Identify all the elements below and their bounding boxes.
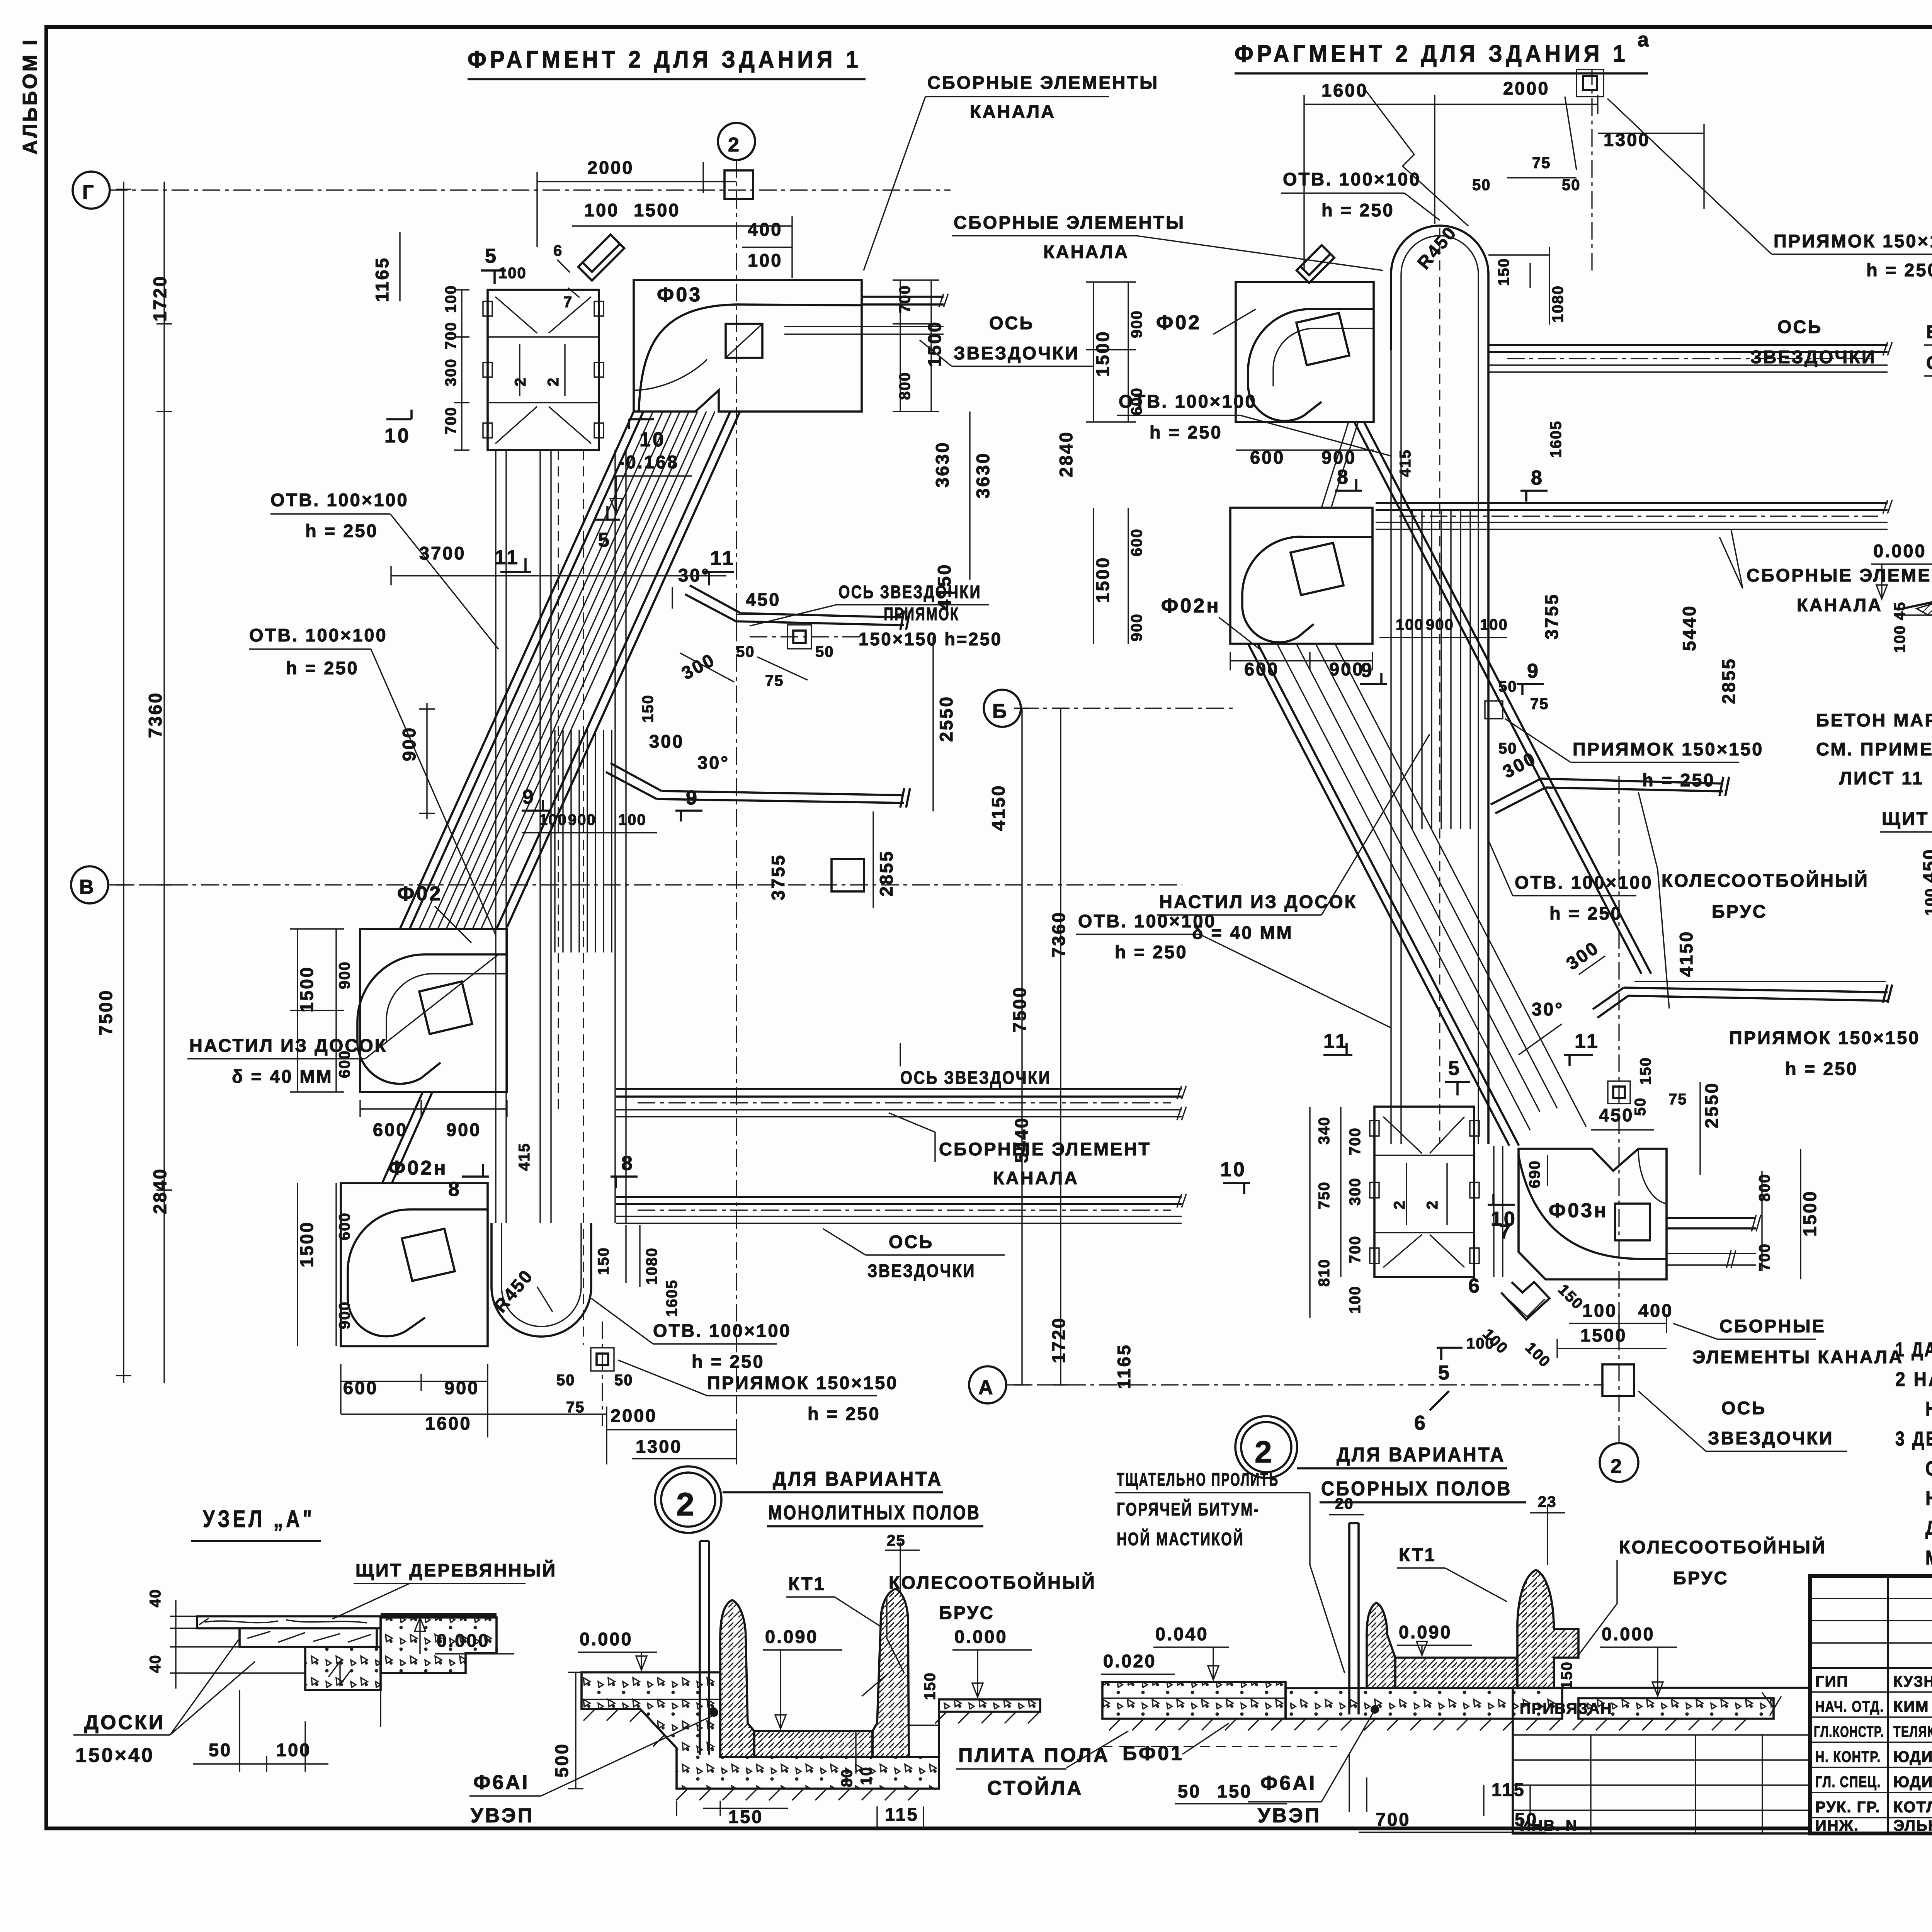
- svg-text:КАНАЛА: КАНАЛА: [1797, 595, 1883, 615]
- N row channel band: [616, 1197, 1182, 1204]
- diagonal continuation to Ф02н: [383, 1092, 432, 1182]
- svg-text:ДОСКИ: ДОСКИ: [84, 1711, 165, 1734]
- svg-text:ОТВ. 100×100: ОТВ. 100×100: [1283, 169, 1421, 189]
- svg-text:11: 11: [1323, 1030, 1349, 1053]
- left table verticals: [1888, 1576, 1932, 1833]
- svg-text:СМ. ПРИМЕЧАНИЕ П.1 ЛИСТ 11: СМ. ПРИМЕЧАНИЕ П.1 ЛИСТ 11: [1926, 352, 1932, 373]
- svg-text:11: 11: [495, 546, 520, 569]
- svg-text:ОСЬ: ОСЬ: [1721, 1398, 1766, 1418]
- section mark 5 bottom: [1437, 1348, 1463, 1360]
- svg-text:ЭЛЬКИНА: ЭЛЬКИНА: [1893, 1817, 1932, 1834]
- svg-text:0.000: 0.000: [954, 1626, 1008, 1647]
- small square on axis Г right: [724, 170, 753, 199]
- axis Г line: [110, 189, 951, 190]
- svg-text:900: 900: [1321, 447, 1356, 468]
- svg-text:100: 100: [584, 200, 619, 220]
- svg-text:450: 450: [1919, 848, 1932, 883]
- svg-text:КАНАЛА: КАНАЛА: [970, 101, 1056, 122]
- circle 2 bottom: [1600, 1443, 1638, 1482]
- svg-text:6: 6: [553, 242, 563, 259]
- svg-text:Ф02н: Ф02н: [388, 1157, 448, 1179]
- svg-text:7360: 7360: [145, 691, 165, 738]
- right wall trough: [872, 1589, 909, 1757]
- floor slab: [754, 1731, 872, 1757]
- svg-text:5440: 5440: [1679, 604, 1699, 651]
- Ф02н inner curve: [348, 1209, 488, 1336]
- svg-text:ГЛ.КОНСТР.: ГЛ.КОНСТР.: [1814, 1723, 1884, 1740]
- svg-text:100: 100: [1480, 616, 1508, 633]
- dim 1500 left of Ф02н: [298, 1183, 336, 1346]
- svg-text:150: 150: [595, 1247, 612, 1275]
- svg-text:2: 2: [545, 377, 562, 386]
- svg-text:150: 150: [922, 1672, 939, 1700]
- section marks 11 mid: [1323, 1043, 1352, 1055]
- svg-text:150×150 h=250: 150×150 h=250: [859, 629, 1002, 649]
- svg-text:0.000: 0.000: [1602, 1624, 1655, 1644]
- svg-text:Ф6АI: Ф6АI: [1260, 1772, 1316, 1794]
- block A1 inner lines: [488, 297, 599, 444]
- svg-text:2: 2: [1611, 1455, 1624, 1478]
- svg-text:а: а: [1638, 29, 1651, 51]
- Ф03 inner rect: [726, 324, 762, 358]
- svg-text:8: 8: [1531, 467, 1544, 489]
- block Ф02 outline: [360, 929, 507, 1092]
- svg-text:1605: 1605: [1548, 420, 1565, 458]
- svg-text:100: 100: [442, 285, 459, 313]
- A2 right wall strip: [1494, 1146, 1503, 1277]
- section mark 6 arrow: [1430, 1391, 1449, 1410]
- section mark 9 right: [675, 811, 702, 821]
- svg-text:600: 600: [343, 1378, 378, 1398]
- svg-text:БРУС: БРУС: [939, 1602, 995, 1623]
- svg-text:1605: 1605: [663, 1279, 680, 1317]
- svg-text:50: 50: [1472, 177, 1491, 194]
- svg-text:ЮДИН: ЮДИН: [1893, 1774, 1932, 1791]
- svg-text:50: 50: [1498, 678, 1517, 695]
- A2 edge tabs: [1370, 1121, 1479, 1264]
- axis 2 circle top: [718, 123, 755, 160]
- svg-text:ЗВЕЗДОЧКИ: ЗВЕЗДОЧКИ: [867, 1260, 976, 1281]
- svg-text:50: 50: [736, 643, 755, 660]
- svg-text:75: 75: [1532, 155, 1551, 172]
- U-turn top inner: [1401, 236, 1478, 1144]
- svg-text:h = 250: h = 250: [1150, 422, 1223, 442]
- wood board second: [240, 1628, 377, 1647]
- block A1 outline: [488, 290, 599, 450]
- svg-text:900: 900: [1128, 310, 1145, 338]
- svg-text:ИНВ. N: ИНВ. N: [1520, 1817, 1578, 1834]
- svg-text:600: 600: [336, 1212, 353, 1240]
- svg-text:КТ1: КТ1: [788, 1573, 826, 1594]
- base slab: [582, 1672, 1040, 1789]
- svg-text:0.040: 0.040: [1155, 1624, 1209, 1644]
- svg-text:415: 415: [1397, 449, 1414, 477]
- svg-text:ПРИВЯЗАН: ПРИВЯЗАН: [1520, 1700, 1612, 1717]
- break line across U: [1366, 91, 1468, 226]
- svg-text:20: 20: [1335, 1495, 1354, 1512]
- axis А line: [1006, 1384, 1604, 1385]
- base slab precast: [1286, 1688, 1562, 1719]
- wide channel walls: [1391, 350, 1401, 1144]
- section mark 5 mid: [1445, 1082, 1470, 1095]
- svg-text:2000: 2000: [587, 157, 634, 178]
- Ф02 mid tilted square: [1296, 313, 1349, 365]
- svg-text:1500: 1500: [1092, 330, 1113, 377]
- Ф03 right channel band: [862, 297, 944, 304]
- svg-text:9: 9: [1527, 660, 1540, 682]
- svg-text:2000: 2000: [611, 1405, 657, 1426]
- block Ф02н mid: [1230, 508, 1372, 644]
- svg-text:700: 700: [1376, 1809, 1410, 1830]
- svg-text:БФ01: БФ01: [1122, 1742, 1184, 1765]
- section mark 8 right: [611, 1177, 638, 1188]
- svg-text:3755: 3755: [768, 854, 788, 900]
- svg-text:450: 450: [1599, 1105, 1634, 1125]
- svg-text:СТРОГАННЫХ ДОСОК δ=40 ММ С УСТ: СТРОГАННЫХ ДОСОК δ=40 ММ С УСТАНОВКОЙ С …: [1925, 1457, 1932, 1480]
- concrete right part: [381, 1613, 497, 1617]
- svg-text:10: 10: [1220, 1158, 1247, 1181]
- svg-text:6: 6: [1468, 1275, 1481, 1297]
- priyamok square bottom: [591, 1348, 614, 1371]
- svg-text:Б: Б: [992, 700, 1009, 723]
- left table rows: [1810, 1599, 1932, 1818]
- svg-text:810: 810: [1316, 1259, 1333, 1287]
- U-turn bottom: [492, 1223, 591, 1337]
- svg-text:Ф02: Ф02: [397, 883, 442, 905]
- svg-text:30°: 30°: [1532, 999, 1564, 1019]
- svg-text:2855: 2855: [876, 850, 896, 896]
- svg-text:5: 5: [485, 245, 498, 267]
- svg-text:3630: 3630: [932, 441, 952, 488]
- svg-text:2855: 2855: [1718, 657, 1739, 704]
- svg-text:1500: 1500: [296, 966, 317, 1012]
- axis А circle: [969, 1366, 1006, 1403]
- svg-text:1500: 1500: [1580, 1325, 1627, 1345]
- svg-text:700: 700: [442, 321, 459, 350]
- svg-text:ИНЖ.: ИНЖ.: [1815, 1817, 1859, 1834]
- svg-text:0.020: 0.020: [1103, 1651, 1156, 1671]
- svg-text:ГЛ. СПЕЦ.: ГЛ. СПЕЦ.: [1815, 1774, 1881, 1791]
- svg-text:100: 100: [618, 811, 646, 828]
- axis Б line: [1021, 707, 1236, 709]
- svg-text:30°: 30°: [697, 752, 730, 773]
- channel centerline: [1439, 228, 1440, 1144]
- svg-text:δ = 40 ММ: δ = 40 ММ: [232, 1066, 333, 1087]
- svg-text:900: 900: [1329, 659, 1364, 679]
- svg-text:1500: 1500: [296, 1221, 317, 1267]
- svg-text:Ф02н: Ф02н: [1161, 595, 1221, 617]
- svg-text:150: 150: [639, 694, 656, 723]
- section mark 11 right: [703, 572, 734, 585]
- svg-text:2840: 2840: [1056, 430, 1076, 477]
- svg-text:300: 300: [442, 358, 459, 386]
- svg-text:ОСЬ ЗВЕЗДОЧКИ: ОСЬ ЗВЕЗДОЧКИ: [838, 582, 981, 602]
- section marks 9: [1360, 673, 1387, 684]
- section mark 10 left mid: [1223, 1183, 1250, 1194]
- svg-text:ЗВЕЗДОЧКИ: ЗВЕЗДОЧКИ: [1708, 1428, 1834, 1448]
- svg-text:ЗВЕЗДОЧКИ: ЗВЕЗДОЧКИ: [954, 343, 1080, 363]
- svg-text:100: 100: [276, 1740, 311, 1760]
- svg-text:700: 700: [896, 285, 913, 313]
- svg-text:ПРИЯМОК 150×150: ПРИЯМОК 150×150: [707, 1372, 898, 1393]
- svg-text:2000: 2000: [1503, 78, 1550, 99]
- Ф03 top hook channel: [578, 235, 624, 281]
- svg-text:ГОРЯЧЕЙ БИТУМ-: ГОРЯЧЕЙ БИТУМ-: [1117, 1499, 1260, 1519]
- ground hatch below: [1109, 1719, 1747, 1730]
- Ф03н right stubs: [1667, 1218, 1756, 1228]
- svg-text:1 ДАННЫЙ ЛИСТ ЧИТАТЬ СОВМЕСТН: 1 ДАННЫЙ ЛИСТ ЧИТАТЬ СОВМЕСТНО С ЛИСТОМ …: [1895, 1338, 1932, 1361]
- svg-text:ОСЬ: ОСЬ: [1777, 316, 1822, 337]
- priyamok square top: [1577, 70, 1604, 97]
- svg-text:НЕ МЕНЕЕ 2-Х ПОПЕРЕЧИН.: НЕ МЕНЕЕ 2-Х ПОПЕРЕЧИН.: [1925, 1487, 1932, 1510]
- svg-text:УВЭП: УВЭП: [471, 1804, 534, 1827]
- svg-text:3700: 3700: [419, 543, 466, 563]
- left dim chain vertical 2: [156, 182, 172, 1383]
- svg-text:7500: 7500: [95, 989, 116, 1036]
- svg-text:Г: Г: [82, 181, 95, 204]
- svg-text:2: 2: [1391, 1200, 1408, 1209]
- svg-text:50: 50: [1178, 1781, 1201, 1801]
- svg-text:2 НА ФРАГМЕНТЕ КОНСТРУКЦИИ ПЕ: 2 НА ФРАГМЕНТЕ КОНСТРУКЦИИ ПЕРЕКРЫТИЯ КА…: [1895, 1368, 1932, 1391]
- svg-text:ПРИЯМОК 150×150: ПРИЯМОК 150×150: [1573, 739, 1764, 759]
- svg-text:3755: 3755: [1541, 593, 1562, 639]
- svg-text:ОТВ. 100×100: ОТВ. 100×100: [1515, 872, 1653, 893]
- axis В circle: [71, 866, 108, 903]
- svg-text:ЩИТ ДЕРЕВЯННЫЙ: ЩИТ ДЕРЕВЯННЫЙ: [1882, 808, 1932, 829]
- svg-text:7: 7: [1499, 1221, 1512, 1243]
- svg-text:900: 900: [568, 811, 596, 828]
- svg-text:1600: 1600: [425, 1413, 472, 1434]
- bent bar 2 mid: [1593, 985, 1892, 1018]
- svg-text:СБОРНЫЕ ЭЛЕМЕНТ: СБОРНЫЕ ЭЛЕМЕНТ: [1747, 565, 1932, 585]
- short link Ф02 to Ф02н: [1321, 422, 1358, 508]
- section mark 9 left: [522, 800, 549, 811]
- svg-text:h = 250: h = 250: [1866, 260, 1932, 280]
- svg-text:0.000: 0.000: [580, 1629, 633, 1649]
- svg-text:МОНОЛИТНЫХ ПОЛОВ: МОНОЛИТНЫХ ПОЛОВ: [768, 1502, 981, 1524]
- svg-text:1500: 1500: [924, 320, 945, 367]
- dim 2000 1300 bottom: [607, 1422, 736, 1464]
- section mark 10 right mid: [1488, 1194, 1515, 1205]
- svg-text:2550: 2550: [936, 695, 956, 742]
- svg-text:ФРАГМЕНТ 2 ДЛЯ ЗДАНИЯ 1: ФРАГМЕНТ 2 ДЛЯ ЗДАНИЯ 1: [468, 46, 862, 73]
- svg-text:150: 150: [1558, 1661, 1575, 1689]
- svg-text:А: А: [978, 1376, 995, 1399]
- svg-text:1720: 1720: [150, 275, 170, 321]
- svg-text:Ф03н: Ф03н: [1549, 1199, 1608, 1222]
- Ф02 mid inner J curve: [1248, 309, 1374, 421]
- narrow channel from A1 down: [496, 450, 506, 1223]
- svg-text:900: 900: [444, 1378, 479, 1398]
- 11-11 slab edges: [1897, 598, 1932, 611]
- svg-text:100: 100: [1396, 616, 1424, 633]
- vertical board: [700, 1541, 709, 1755]
- lower concrete column: [305, 1647, 381, 1690]
- svg-text:11: 11: [710, 547, 735, 570]
- svg-text:75: 75: [1530, 696, 1549, 713]
- svg-text:2: 2: [1424, 1200, 1441, 1209]
- svg-text:В: В: [79, 876, 96, 898]
- svg-text:ТЕЛЯКОВСКИЙ: ТЕЛЯКОВСКИЙ: [1893, 1723, 1932, 1740]
- section mark 10 right: [629, 419, 654, 429]
- left wall trough: [720, 1600, 754, 1757]
- svg-text:δ = 40 ММ: δ = 40 ММ: [1192, 922, 1293, 943]
- svg-text:h = 250: h = 250: [1321, 200, 1395, 220]
- svg-text:КАНАЛА: КАНАЛА: [993, 1168, 1079, 1188]
- svg-text:1080: 1080: [1549, 285, 1566, 323]
- dims right of Ф03н: [1762, 1149, 1801, 1279]
- priyamok small square mid: [1485, 701, 1503, 719]
- U-turn top outer: [1391, 226, 1488, 1144]
- svg-text:7360: 7360: [1048, 911, 1069, 957]
- svg-text:11: 11: [1575, 1030, 1600, 1053]
- Ф02н mid inner curve: [1242, 537, 1372, 642]
- A2 inner lines: [1374, 1117, 1474, 1267]
- svg-text:ОТВ. 100×100: ОТВ. 100×100: [653, 1320, 791, 1341]
- svg-text:ОТВ. 100×100: ОТВ. 100×100: [270, 490, 409, 510]
- svg-text:115: 115: [1492, 1779, 1526, 1800]
- svg-text:150: 150: [1217, 1781, 1252, 1801]
- svg-text:КУЗНЕЦОВ: КУЗНЕЦОВ: [1893, 1673, 1932, 1690]
- svg-text:10: 10: [858, 1767, 875, 1786]
- block A1 edge tabs: [483, 301, 604, 438]
- svg-text:1600: 1600: [1321, 80, 1368, 100]
- svg-text:100: 100: [539, 811, 567, 828]
- svg-text:900: 900: [336, 961, 353, 989]
- svg-text:КИМ: КИМ: [1893, 1698, 1929, 1715]
- svg-text:1080: 1080: [643, 1247, 660, 1285]
- svg-text:50: 50: [614, 1372, 633, 1389]
- svg-text:415: 415: [516, 1143, 533, 1171]
- dim 2000 top: [537, 162, 736, 247]
- block Ф02 mid outline: [1236, 282, 1374, 422]
- svg-text:ДЛЯ ВАРИАНТА: ДЛЯ ВАРИАНТА: [773, 1468, 943, 1490]
- svg-text:БРУС: БРУС: [1673, 1568, 1729, 1588]
- svg-text:5: 5: [1448, 1057, 1461, 1080]
- ground hatch below: [583, 1709, 1039, 1800]
- svg-text:100: 100: [1922, 888, 1932, 916]
- svg-text:100: 100: [748, 250, 782, 270]
- Ф02 top hook: [1296, 245, 1334, 283]
- svg-text:СБОРНЫЕ ЭЛЕМЕНТ: СБОРНЫЕ ЭЛЕМЕНТ: [939, 1139, 1151, 1159]
- block Ф02н outline: [341, 1183, 488, 1346]
- svg-text:ДЛЯ ВАРИАНТА: ДЛЯ ВАРИАНТА: [1337, 1444, 1505, 1466]
- svg-text:900: 900: [446, 1119, 481, 1140]
- svg-text:2: 2: [728, 134, 741, 156]
- svg-text:УВЭП: УВЭП: [1258, 1804, 1321, 1827]
- svg-text:1500: 1500: [634, 200, 680, 220]
- circle 2 precast: [1235, 1416, 1297, 1478]
- svg-text:ОТВ. 100×100: ОТВ. 100×100: [249, 625, 388, 645]
- svg-text:ЮДИН: ЮДИН: [1893, 1748, 1932, 1765]
- row1 band right: [1488, 345, 1888, 352]
- svg-text:СБОРНЫЕ: СБОРНЫЕ: [1719, 1316, 1826, 1336]
- svg-text:800: 800: [1756, 1173, 1773, 1202]
- svg-text:50: 50: [556, 1372, 575, 1389]
- svg-text:700: 700: [1756, 1243, 1773, 1271]
- svg-text:100: 100: [498, 265, 527, 282]
- svg-text:115: 115: [885, 1804, 919, 1825]
- svg-text:8: 8: [621, 1152, 634, 1175]
- svg-text:Н. КОНТР.: Н. КОНТР.: [1815, 1748, 1881, 1765]
- svg-text:СБОРНЫЕ ЭЛЕМЕНТЫ: СБОРНЫЕ ЭЛЕМЕНТЫ: [954, 212, 1185, 233]
- svg-text:40: 40: [147, 1589, 164, 1608]
- 11-11 slab band: [1917, 598, 1932, 615]
- svg-text:50: 50: [1498, 740, 1517, 757]
- svg-text:0.090: 0.090: [765, 1626, 818, 1647]
- svg-text:ОСЬ ЗВЕЗДОЧКИ: ОСЬ ЗВЕЗДОЧКИ: [900, 1067, 1051, 1088]
- svg-text:3 ДЕРЕВЯННЫЕ ЩИТЫ ИЗГОТОВЛЯТЬ: 3 ДЕРЕВЯННЫЕ ЩИТЫ ИЗГОТОВЛЯТЬ ПО МЕСТУ С…: [1895, 1428, 1932, 1450]
- svg-text:ЛИСТ 11: ЛИСТ 11: [1839, 768, 1924, 788]
- svg-text:1720: 1720: [1048, 1316, 1069, 1363]
- dim 1600 2000 top: [1304, 95, 1704, 270]
- section mark 8 left: [462, 1164, 489, 1177]
- svg-text:ОСЬ: ОСЬ: [989, 313, 1034, 333]
- svg-text:400: 400: [748, 219, 782, 240]
- wood boards top: [197, 1616, 381, 1628]
- svg-text:НАЧ. ОТД.: НАЧ. ОТД.: [1815, 1698, 1884, 1715]
- svg-text:700: 700: [1347, 1235, 1364, 1264]
- V1 board hatch: [555, 730, 612, 952]
- svg-text:4150: 4150: [934, 563, 954, 610]
- Ф02 tilted square: [419, 981, 472, 1034]
- svg-text:КОЛЕСООТБОЙНЫЙ: КОЛЕСООТБОЙНЫЙ: [889, 1572, 1096, 1593]
- svg-text:2840: 2840: [150, 1167, 170, 1214]
- square on axis above circle 2: [1602, 1364, 1634, 1396]
- section mark 11 left: [500, 558, 531, 572]
- svg-text:400: 400: [1638, 1300, 1673, 1321]
- svg-text:-0.168: -0.168: [618, 452, 679, 472]
- svg-text:БЕТОН МАРКИ М300: БЕТОН МАРКИ М300: [1926, 321, 1932, 342]
- bent bar 1: [685, 585, 910, 630]
- svg-text:0.090: 0.090: [1399, 1622, 1452, 1642]
- svg-text:ЩИТ ДЕРЕВЯННЫЙ: ЩИТ ДЕРЕВЯННЫЙ: [355, 1560, 557, 1580]
- svg-text:h = 250: h = 250: [692, 1351, 765, 1372]
- svg-text:1300: 1300: [636, 1436, 682, 1457]
- svg-text:1500: 1500: [1799, 1190, 1820, 1236]
- svg-text:h = 250: h = 250: [1549, 903, 1622, 923]
- plain square row B: [832, 859, 864, 891]
- board hatch middle channel: [1412, 510, 1470, 829]
- svg-text:600: 600: [1128, 528, 1145, 556]
- svg-text:ДЛЯ ИЗГОТОВЛЕНИЯ ПРИНЯТЬ ДРЕВЕ: ДЛЯ ИЗГОТОВЛЕНИЯ ПРИНЯТЬ ДРЕВЕСИНУ ХВОЙН…: [1925, 1517, 1932, 1539]
- B row channel band: [616, 1089, 1182, 1097]
- svg-text:2: 2: [676, 1486, 694, 1522]
- svg-text:БЕТОН МАРКИ М300: БЕТОН МАРКИ М300: [1816, 710, 1932, 730]
- Ф02 inner J-curve: [357, 954, 507, 1084]
- svg-text:НАСТИЛ ИЗ ДОСОК: НАСТИЛ ИЗ ДОСОК: [189, 1035, 387, 1056]
- svg-text:УЗЕЛ „А": УЗЕЛ „А": [203, 1506, 315, 1532]
- svg-text:ТЩАТЕЛЬНО ПРОЛИТЬ: ТЩАТЕЛЬНО ПРОЛИТЬ: [1117, 1469, 1279, 1490]
- axis 2 vertical middle plan: [1592, 70, 1619, 1443]
- svg-text:690: 690: [1526, 1160, 1543, 1188]
- svg-text:100: 100: [1347, 1286, 1364, 1314]
- svg-text:1165: 1165: [1114, 1344, 1134, 1389]
- svg-text:75: 75: [566, 1399, 585, 1416]
- svg-text:900: 900: [399, 726, 419, 761]
- svg-text:900: 900: [336, 1301, 353, 1329]
- wide channel V1 walls: [540, 450, 626, 1223]
- section mark 5 top: [481, 270, 506, 284]
- diagonal continuation to Ф03н: [1615, 923, 1651, 974]
- svg-text:40: 40: [147, 1655, 164, 1673]
- axis 2 vertical line: [736, 160, 737, 1426]
- svg-text:8: 8: [448, 1178, 461, 1201]
- left bump wall: [1367, 1603, 1395, 1688]
- axis Б circle: [984, 690, 1021, 727]
- svg-text:700: 700: [442, 406, 459, 435]
- Ф02н mid tilted square: [1291, 543, 1344, 595]
